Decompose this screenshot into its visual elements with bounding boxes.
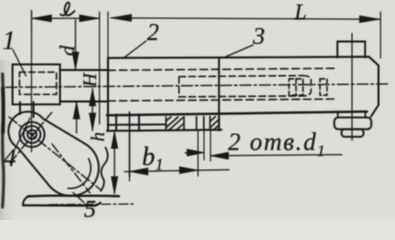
dimension d: upper arrow [75, 20, 77, 69]
foot (part 5) [28, 194, 119, 197]
scan gutter dark edge [3, 74, 4, 207]
main bar: bottom edge [107, 112, 367, 116]
centerline of bar (dash-dot) [6, 84, 390, 87]
stud top line [60, 69, 108, 71]
nut upper [334, 117, 371, 129]
leader 1 [13, 50, 26, 76]
screw centerline vertical [351, 34, 353, 141]
dimension b1: line + arrows + extensions [125, 170, 230, 172]
leader 5 [73, 193, 84, 203]
main bar: right edge [371, 66, 379, 117]
leader 4 [15, 118, 30, 149]
big-end perpendicular centerline [52, 144, 90, 193]
hidden slot right cap (dashed rounded) [303, 76, 311, 96]
L extension lines [108, 12, 381, 58]
dimension L: line + arrows [111, 18, 380, 19]
hidden slot lines (dashed) [179, 76, 303, 97]
hatch block 1 [166, 117, 184, 131]
stud bottom line [60, 101, 108, 103]
cam axis centerline [9, 117, 101, 190]
leader 3 [224, 45, 253, 58]
foot mid line [108, 123, 166, 126]
square head on right end [337, 42, 365, 58]
dimension d: lower arrow [76, 103, 78, 134]
leader 2 [123, 41, 146, 59]
sleeve/rod boundary + foot right edge [218, 57, 220, 130]
hidden hole edge marks [116, 114, 139, 130]
bracket cheeks below block [20, 102, 34, 117]
cam (part 4) outline [8, 112, 98, 196]
hidden small rect right [320, 79, 327, 95]
dimension d1 callout arrows [185, 152, 204, 154]
main bar: left edge [107, 58, 109, 131]
foot centerline [49, 203, 133, 206]
hub vertical centerline up through block [31, 11, 33, 153]
workpiece break wavy line [101, 148, 108, 192]
gap verticals [197, 117, 204, 131]
hidden pin rect in slot [289, 79, 303, 95]
hub perpendicular centerline [10, 112, 52, 163]
foot plate bottom line [107, 130, 222, 131]
nut lower tip [342, 129, 364, 137]
shank verticals below bar [338, 112, 366, 118]
bracket 1: block outline [13, 64, 61, 104]
main bar: top edge [108, 57, 379, 66]
bracket 1: hidden cavity dashed [20, 72, 57, 94]
hub circles [28, 130, 37, 139]
bore hidden lines (dashed) [108, 68, 337, 101]
dimension l: line + arrows [32, 17, 99, 19]
hatch block 2 [210, 116, 219, 130]
dimension h: double arrow [114, 132, 116, 194]
dimension H: double arrow [92, 89, 94, 131]
cam inner profile arc [68, 159, 91, 189]
l extension lines [32, 11, 100, 125]
